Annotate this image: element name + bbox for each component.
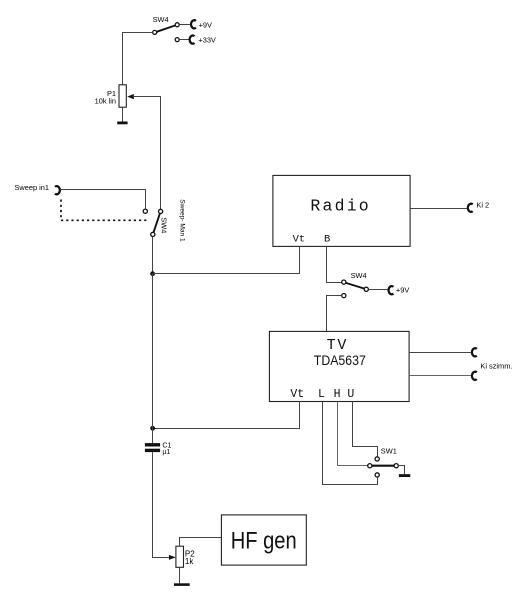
wire TV out upper <box>409 352 471 354</box>
node A (junction) <box>150 271 155 276</box>
svg-text:TDA5637: TDA5637 <box>314 352 366 368</box>
wire TV U pin <box>353 402 378 457</box>
svg-text:Sweep- Man 1: Sweep- Man 1 <box>179 199 186 242</box>
wire P2 top to HF gen <box>180 538 222 547</box>
svg-text:+9V: +9V <box>199 20 212 29</box>
wire TV H pin <box>338 402 368 466</box>
svg-text:Vt: Vt <box>293 234 306 246</box>
wire SW4 throw to +9V <box>179 24 191 26</box>
wire Sweep in1 to SW4 (sweep throw) <box>61 190 146 210</box>
wire Radio B pin to SW4 <box>327 247 342 283</box>
svg-text:U: U <box>347 388 354 401</box>
switch SW4 (top power selector) <box>153 15 180 34</box>
wire C1 to P2 wiper <box>153 452 169 557</box>
potentiometer P1 10k lin <box>95 85 127 107</box>
block Radio <box>273 175 410 246</box>
svg-text:B: B <box>324 234 330 246</box>
svg-text:SW4: SW4 <box>160 217 169 233</box>
wire SW1 to ground <box>398 466 404 475</box>
svg-text:Vt: Vt <box>290 388 304 401</box>
svg-text:Radio: Radio <box>310 197 371 216</box>
svg-text:Ki 2: Ki 2 <box>476 201 489 210</box>
connector Ki szimm lower <box>472 372 477 380</box>
block HF gen <box>221 515 306 565</box>
wire wiper to SW4 (man) <box>133 97 161 210</box>
wire to +9V connector <box>369 289 389 291</box>
ground (SW1) <box>399 474 410 477</box>
wire node A to Radio Vt pin <box>153 247 300 274</box>
wire node A to C1 <box>152 274 154 444</box>
switch SW4 (Sweep/Man selector) <box>143 209 169 236</box>
capacitor C1 <box>145 443 172 456</box>
svg-text:Ki szimm.: Ki szimm. <box>480 362 512 371</box>
dashed mechanical link <box>61 200 149 221</box>
svg-text:H: H <box>334 388 341 401</box>
connector +9V (TV) <box>389 286 394 294</box>
wiper arrow P2 <box>169 555 176 560</box>
connector +9V <box>191 20 196 28</box>
svg-text:+9V: +9V <box>396 286 409 295</box>
wiper arrow P1 <box>127 94 134 99</box>
wire TV out lower <box>409 375 471 377</box>
wire TV L pin <box>323 402 378 485</box>
ground (below P1) <box>122 107 124 121</box>
block TV TDA5637 <box>269 331 409 401</box>
switch SW1 <box>368 447 399 477</box>
switch SW4 (B supply selector) <box>342 271 369 298</box>
svg-text:Sweep in1: Sweep in1 <box>15 183 50 192</box>
svg-text:SW4: SW4 <box>351 271 367 280</box>
svg-text:1k: 1k <box>185 557 194 566</box>
svg-text:10k lin: 10k lin <box>95 96 116 105</box>
svg-text:SW1: SW1 <box>381 447 397 456</box>
svg-text:L: L <box>318 388 325 401</box>
svg-text:SW4: SW4 <box>153 15 169 24</box>
svg-text:+33V: +33V <box>198 36 216 45</box>
wire lower throw to TV top <box>327 296 342 332</box>
wire TV Vt pin to node B <box>153 402 300 429</box>
connector Ki szimm upper <box>472 348 477 356</box>
svg-text:HF gen: HF gen <box>231 527 297 554</box>
connector +33V <box>175 38 179 42</box>
svg-text:µ1: µ1 <box>162 449 170 456</box>
wire Radio out to Ki 2 <box>410 208 467 210</box>
wire SW4 pole to P1 top <box>123 33 153 85</box>
ground (below P2) <box>179 567 181 583</box>
node B (junction) <box>150 426 155 431</box>
connector Ki 2 <box>468 204 473 212</box>
potentiometer P2 1k <box>176 546 195 567</box>
wire pole to node A <box>152 237 154 274</box>
